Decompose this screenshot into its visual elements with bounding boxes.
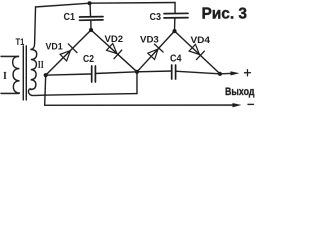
wire VD1 diagonal xyxy=(46,30,91,75)
diode VD2 with wire diagonal xyxy=(91,30,137,72)
arrow output minus xyxy=(232,103,241,107)
node peak1 junction dot xyxy=(89,28,93,32)
wire primary top lead xyxy=(1,55,18,57)
wire C3 bottom lead xyxy=(174,18,176,31)
wire top rail xyxy=(36,2,176,7)
wire left riser from secondary top to top rail xyxy=(31,7,36,50)
VD2 triangle xyxy=(107,43,118,53)
capacitor C4 xyxy=(170,54,182,80)
svg-text:I: I xyxy=(3,71,7,82)
wire VD2 diagonal xyxy=(91,30,137,72)
svg-text:Рис. 3: Рис. 3 xyxy=(202,6,248,23)
svg-text:VD4: VD4 xyxy=(191,35,211,46)
wire valley vertical drop xyxy=(136,72,138,94)
label minus xyxy=(248,103,254,105)
wire middle rail C4 to right junction and output plus xyxy=(176,71,232,74)
capacitor C1 xyxy=(64,3,104,30)
wire C1 bottom lead xyxy=(90,21,92,30)
svg-text:VD1: VD1 xyxy=(46,41,64,52)
VD1 triangle xyxy=(60,51,70,61)
wire ground return: winding bottom to valley drop xyxy=(45,94,137,96)
svg-text:C1: C1 xyxy=(64,12,76,23)
wire VD3 diagonal xyxy=(137,31,175,72)
node peak2 junction dot xyxy=(172,29,176,33)
transformer T1 xyxy=(1,37,45,100)
VD1 cathode bar xyxy=(68,44,77,53)
wire VD4 diagonal xyxy=(174,31,220,74)
C2 plate left xyxy=(91,66,93,82)
svg-text:II: II xyxy=(38,59,44,71)
VD3 cathode bar xyxy=(155,44,164,52)
arrow output plus xyxy=(230,71,239,75)
svg-text:VD3: VD3 xyxy=(140,35,159,46)
winding II (secondary) xyxy=(31,49,37,89)
capacitor C3 xyxy=(150,3,189,32)
wire middle rail left segment to C2 xyxy=(46,74,92,75)
core line 1 xyxy=(22,46,24,100)
wire left vertical from left junction down xyxy=(45,75,46,105)
node left junction dot xyxy=(44,73,48,77)
wire bottom rail to output minus xyxy=(45,104,233,106)
C4 plate left xyxy=(171,65,173,79)
VD2 cathode bar xyxy=(114,50,122,59)
wire secondary bottom lead curve xyxy=(28,89,44,96)
wire middle rail valley to C4 xyxy=(137,70,172,73)
wire C1 top lead xyxy=(89,3,92,16)
svg-text:C4: C4 xyxy=(170,54,182,65)
svg-text:Выход: Выход xyxy=(225,86,255,98)
VD4 cathode bar xyxy=(196,51,204,60)
core line 2 xyxy=(25,46,27,100)
svg-text:VD2: VD2 xyxy=(105,34,124,45)
C4 plate right xyxy=(175,65,177,79)
node: C1 tap junction dot on top rail xyxy=(88,1,92,5)
VD4 triangle xyxy=(189,44,199,54)
node valley junction dot xyxy=(135,70,139,74)
C3 plate bottom xyxy=(164,17,188,19)
diode VD4 with wire diagonal xyxy=(174,31,220,74)
diode VD1 with wire diagonal xyxy=(45,30,91,75)
capacitor C2 xyxy=(83,54,95,82)
node right junction dot xyxy=(218,72,222,76)
wire C3 top lead xyxy=(174,3,176,13)
svg-text:C3: C3 xyxy=(150,12,162,23)
wire primary bottom lead xyxy=(1,92,18,94)
C2 plate right xyxy=(94,66,96,82)
winding I (primary) xyxy=(13,56,20,93)
wire middle rail C2 to valley xyxy=(95,72,137,74)
C1 plate top xyxy=(80,16,104,18)
diode VD3 with wire diagonal xyxy=(137,31,175,72)
C1 plate bottom xyxy=(80,19,104,21)
VD3 triangle xyxy=(148,49,158,59)
label plus xyxy=(244,70,250,76)
C3 plate top xyxy=(164,12,188,14)
svg-text:C2: C2 xyxy=(83,54,94,65)
